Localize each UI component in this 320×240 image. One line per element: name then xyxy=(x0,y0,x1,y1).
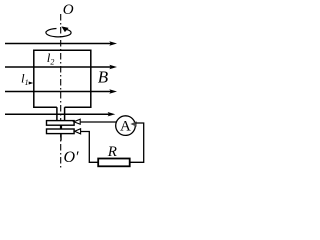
field line 4 (arrow right) xyxy=(5,112,115,116)
gray arrowhead at ammeter right xyxy=(130,121,136,127)
coil loop (rectangle, open at bottom centre) xyxy=(34,50,91,107)
slip ring 2 xyxy=(47,129,75,134)
axis O-O' (dash-dot rotation axis) xyxy=(60,14,62,168)
field line 2 (arrow right) xyxy=(5,65,117,69)
svg-text:l2: l2 xyxy=(47,50,55,67)
field line 3 (arrow right) xyxy=(5,89,117,93)
wire ammeter to right corner down to resistor xyxy=(130,123,144,162)
svg-text:B: B xyxy=(98,68,109,87)
svg-text:l1: l1 xyxy=(21,70,29,87)
resistor R (rectangle) xyxy=(98,159,130,167)
ammeter U1 (circle) xyxy=(116,116,136,136)
slip ring 1 xyxy=(47,121,75,126)
coil lead left xyxy=(56,107,58,121)
brush 2 (triangle contact) xyxy=(75,129,81,134)
wire brush2 down to resistor xyxy=(81,132,99,163)
svg-text:R: R xyxy=(107,144,117,160)
svg-text:O: O xyxy=(63,2,74,18)
wire brush1 to ammeter xyxy=(81,121,117,123)
small arrow at l1 pointing to coil edge xyxy=(29,82,34,85)
connector between rings xyxy=(60,125,62,129)
rotation arrow around axis xyxy=(46,26,71,36)
coil lead right xyxy=(64,107,66,121)
brush 1 (triangle contact) xyxy=(74,119,80,124)
svg-text:A: A xyxy=(120,119,131,135)
stub below ring 2 xyxy=(60,134,62,141)
svg-text:O′: O′ xyxy=(64,149,80,166)
field line 1 (arrow right) xyxy=(5,41,117,45)
